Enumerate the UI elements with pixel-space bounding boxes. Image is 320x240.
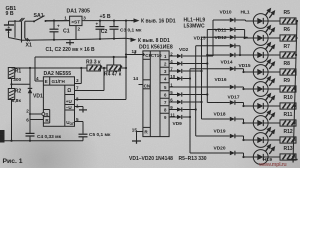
- wire row6 to col4 low: [188, 94, 207, 96]
- wire row68: [12, 67, 88, 69]
- wire top rail to DA1: [46, 20, 70, 22]
- LED HL1: [253, 14, 268, 29]
- wire row9 to col1 low: [188, 116, 190, 118]
- diode VD16: [213, 86, 230, 88]
- node bus row 9: [292, 156, 294, 158]
- resistor R4 47k: [101, 67, 108, 69]
- wire row5 direct: [169, 86, 213, 88]
- wire R1 R2 node to VD1: [12, 83, 31, 85]
- diode VD12: [202, 36, 230, 38]
- wire row2 to col4: [188, 63, 207, 65]
- resistor R8: [268, 71, 280, 73]
- capacitor C3: [113, 21, 115, 27]
- ground power bus: [9, 38, 134, 41]
- matrix column 5: [212, 20, 214, 56]
- wire rail DA1 to right: [82, 20, 136, 22]
- diode VD15: [190, 68, 230, 70]
- wire row1 to col5: [188, 55, 213, 57]
- wire row8 to col2 low: [188, 109, 196, 111]
- right ground bus: [293, 21, 297, 160]
- capacitor C4: [29, 120, 31, 134]
- net arrow to pin 16 DD1: [131, 20, 138, 22]
- resistor R13: [268, 156, 280, 158]
- diode VD20: [190, 152, 230, 154]
- resistor R7: [268, 54, 280, 56]
- LED HL4: [253, 65, 268, 80]
- matrix column 2: [195, 46, 197, 136]
- node bus row 8: [292, 139, 294, 141]
- resistor R5: [268, 20, 280, 22]
- wire reset pin4 stub: [35, 80, 43, 82]
- resistor R1 300: [8, 68, 14, 79]
- LED HL2: [253, 31, 268, 46]
- resistor R10: [268, 105, 280, 107]
- wire row4 to col1: [188, 78, 190, 80]
- resistor R12: [268, 139, 280, 141]
- diode group VD2-VD9: [169, 55, 177, 57]
- diode VD14: [207, 54, 230, 56]
- diode VD13: [196, 45, 230, 47]
- ground symbol right: [288, 159, 298, 161]
- diode VD17: [207, 102, 230, 104]
- LED HL9: [253, 150, 268, 165]
- capacitor C5: [82, 132, 84, 135]
- wire +5V subrail y57: [125, 56, 127, 58]
- diode VD19: [196, 135, 230, 137]
- wire row3 to col3: [188, 70, 202, 72]
- LED HL7: [253, 116, 268, 131]
- matrix column 1: [189, 69, 191, 153]
- diode VD11: [207, 29, 230, 31]
- resistor R9: [268, 88, 280, 90]
- LED HL8: [253, 133, 268, 148]
- resistor R2 6.8k: [8, 89, 14, 100]
- diode VD18: [202, 118, 230, 120]
- wire trigger nodes 2 6: [29, 113, 31, 115]
- ground symbol power: [69, 40, 71, 43]
- scan grain overlay: [0, 0, 300, 168]
- capacitor C1: [53, 21, 55, 30]
- LED HL6: [253, 99, 268, 114]
- diode VD1: [29, 68, 31, 93]
- capacitor C2: [99, 21, 101, 27]
- node bus row 1: [296, 20, 298, 22]
- resistor R6: [268, 37, 280, 39]
- wire +5V drop x126: [125, 20, 127, 22]
- LED HL5: [253, 82, 268, 97]
- diode VD10: [213, 19, 230, 21]
- LED HL3: [253, 48, 268, 63]
- node bus row 7: [293, 122, 295, 124]
- matrix column 3: [201, 37, 203, 119]
- matrix column 4: [206, 30, 208, 103]
- net arrow to pin 8 DD1: [131, 38, 137, 42]
- resistor R11: [268, 122, 280, 124]
- connector X1: [9, 20, 22, 22]
- wire clock stub pin 13: [125, 53, 127, 55]
- node bus row 3: [295, 54, 297, 56]
- ground bus 555: [3, 140, 83, 142]
- node bus row 5: [294, 88, 296, 90]
- node bus row 6: [293, 105, 295, 107]
- node bus row 4: [294, 71, 296, 73]
- wire row7 to col3 low: [188, 101, 202, 103]
- node bus row 2: [295, 37, 297, 39]
